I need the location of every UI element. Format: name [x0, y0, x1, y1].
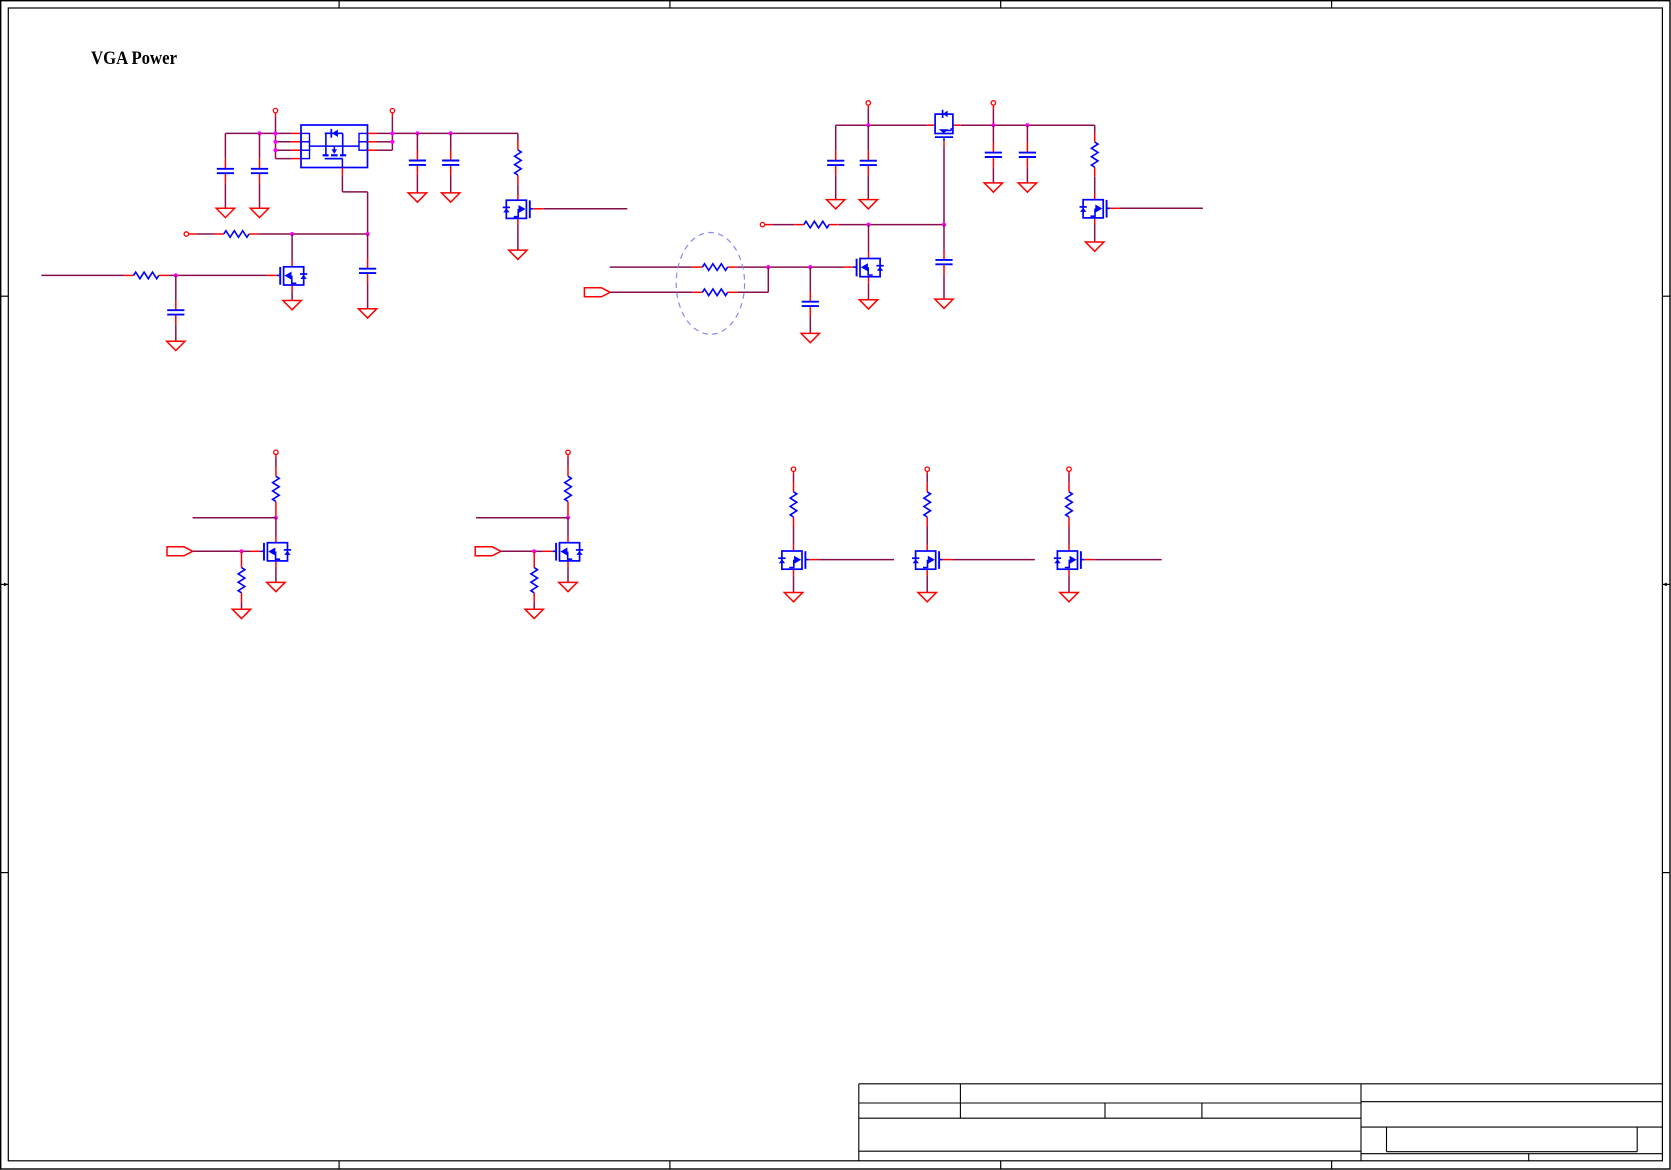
wire Q1 source [517, 225, 519, 251]
wire C10 stem [1026, 125, 1028, 183]
ground G2 [250, 208, 268, 217]
capacitor C1 [217, 159, 234, 184]
wire CN2 to Q6 gate [193, 550, 251, 552]
wire P11 to R14 [1068, 471, 1070, 482]
ground G21 [784, 593, 802, 602]
wire R12 to Q8 [793, 527, 795, 545]
junction C11 tap [808, 265, 812, 269]
wire R9 to ground [241, 602, 243, 609]
wire Q9 source [926, 575, 928, 592]
wire Q3 gate vertical [943, 146, 945, 224]
pin P1 [273, 108, 277, 112]
pin P10 [925, 467, 929, 471]
junction C5 tap [366, 232, 370, 236]
transistor Q2 [267, 261, 307, 292]
resistor R2 [214, 231, 258, 238]
transistor Q6 [251, 537, 291, 568]
wire P3 to R2 [189, 233, 215, 235]
wire C8 stem [867, 125, 869, 199]
ground G20 [559, 582, 577, 591]
ground G13 [1086, 242, 1104, 251]
junction P2 rail [390, 131, 394, 135]
wire Q5 source [868, 283, 870, 300]
wire CN3 to Q7 gate [501, 550, 543, 552]
resistor R9 [238, 558, 245, 602]
wire P6 to R5 [765, 224, 795, 226]
pin P11 [1067, 467, 1071, 471]
junction node A [274, 516, 278, 520]
capacitor C2 [251, 159, 268, 184]
ground G15 [859, 300, 877, 309]
ground G18 [267, 582, 285, 591]
title block [859, 1084, 1663, 1161]
wire U1 outputs [368, 113, 518, 150]
wire C12 stem [943, 225, 945, 300]
transistor Q7 [543, 537, 583, 568]
transistor Q4 [1080, 194, 1120, 225]
wire Q8 source [793, 575, 795, 592]
capacitor C10 [1019, 143, 1036, 168]
wire Q10 gate out [1094, 559, 1162, 561]
wire rail to R1 [517, 133, 519, 140]
transistor Q8 [778, 545, 818, 576]
pin P9 [791, 467, 795, 471]
wire P8 to R10 [567, 455, 569, 467]
wire P10 to R13 [926, 471, 928, 482]
pin P5 [991, 101, 995, 105]
junction U1 pin3 [273, 148, 277, 152]
junction C2 tap [257, 131, 261, 135]
wire divider row1 [610, 266, 811, 268]
ground G8 [283, 301, 301, 310]
svg-text:VGA Power: VGA Power [91, 48, 177, 69]
resistor R7 [693, 289, 737, 296]
junction C6 tap [174, 273, 178, 277]
ground G16 [935, 299, 953, 308]
capacitor C8 [860, 151, 877, 176]
junction C12 tap [942, 223, 946, 227]
ground G14 [801, 333, 819, 342]
wire Q9 gate out [952, 559, 1035, 561]
wire net VIN_R top rail [836, 125, 1095, 150]
wire P1 to U1 pins [276, 113, 302, 159]
wire R10 to node B [567, 511, 569, 518]
capacitor C11 [802, 292, 819, 317]
transistor Q10 [1054, 545, 1094, 576]
wire C7 to ground [835, 175, 837, 199]
wire P7 to R8 [275, 455, 277, 467]
ground G10 [859, 200, 877, 209]
ground G5 [509, 250, 527, 259]
transistor Q5 [843, 252, 883, 282]
resistor R10 [565, 467, 572, 511]
border center arrow left [1, 583, 9, 587]
junction node B [566, 516, 570, 520]
resistor R8 [273, 467, 280, 511]
junction C3 tap [415, 131, 419, 135]
ground G12 [1018, 183, 1036, 192]
wire R1 to Q1 [517, 185, 519, 195]
junction P4 rail [866, 123, 870, 127]
wire R14 to Q10 [1068, 527, 1070, 545]
wire Q4 gate out [1120, 207, 1203, 209]
wire node B to Q7 [567, 518, 569, 537]
resistor R6 [693, 264, 737, 271]
wire gate to R11 [533, 551, 535, 558]
ground G23 [1060, 593, 1078, 602]
wire C5 stem [367, 234, 369, 309]
junction divider join [766, 265, 770, 269]
connector CN3 [475, 547, 501, 556]
wire P9 to R12 [793, 471, 795, 482]
connector CN1 [584, 288, 610, 297]
resistor R14 [1066, 482, 1073, 526]
pin P7 [274, 450, 278, 454]
wire gate node to Q5 [868, 225, 870, 253]
p-mosfet Q3 [927, 110, 961, 146]
pin P2 [390, 108, 394, 112]
ground G11 [984, 183, 1002, 192]
capacitor C6 [167, 300, 184, 325]
wire Q10 source [1068, 575, 1070, 592]
connector CN2 [167, 547, 193, 556]
capacitor C12 [935, 250, 952, 275]
wire Q8 gate out [819, 559, 894, 561]
wire R8 to node A [275, 511, 277, 518]
wire Q7 source [567, 567, 569, 582]
pin P6 [760, 222, 764, 226]
dashed highlight ellipse [676, 233, 744, 335]
ground G3 [408, 193, 426, 202]
border center arrow right [1662, 583, 1670, 587]
wire C6 stem [175, 275, 177, 341]
wire R11 to ground [533, 602, 535, 609]
junction C10 tap [1025, 123, 1029, 127]
resistor R11 [531, 558, 538, 602]
dual p-mosfet U1 [301, 125, 368, 175]
wire Q5 gate in [810, 266, 843, 268]
wire Q1 gate out [543, 208, 627, 210]
wire gate row [839, 224, 944, 226]
ground G9 [827, 200, 845, 209]
ground G1 [216, 208, 234, 217]
resistor R13 [924, 482, 931, 526]
resistor R3 [124, 272, 168, 279]
wire divider row2 [610, 267, 768, 292]
wire Q2 source [291, 291, 293, 300]
capacitor C9 [985, 143, 1002, 168]
wire W2 input row [41, 274, 267, 276]
wire R2 to gate node [259, 233, 368, 235]
capacitor C4 [442, 150, 459, 175]
capacitor C7 [827, 151, 844, 176]
transistor Q1 [503, 194, 543, 225]
wire gate node to Q2 [291, 234, 293, 261]
transistor Q9 [912, 545, 952, 576]
pin P4 [866, 101, 870, 105]
ground G4 [442, 193, 460, 202]
wire U1 gate elbow [342, 175, 367, 234]
wire node B stub left [476, 517, 568, 519]
resistor R4 [1091, 133, 1098, 177]
wire net VIN_L top rail [225, 133, 301, 158]
capacitor C5 [359, 259, 376, 284]
wire C11 stem [809, 267, 811, 333]
wire P5 stem [992, 105, 994, 125]
wire Q6 source [275, 567, 277, 582]
ground G7 [167, 341, 185, 350]
wire rail to R4 [1094, 125, 1096, 132]
wire C2 stem [259, 133, 261, 208]
pin P3 [184, 232, 188, 236]
junction Q5 drain tap [866, 223, 870, 227]
wire node A stub left [193, 517, 276, 519]
pin P8 [566, 450, 570, 454]
junction Q2 drain tap [290, 232, 294, 236]
ground G6 [358, 309, 376, 318]
junction Q7 gate node [532, 549, 536, 553]
wire C3 stem [416, 133, 418, 193]
wire C9 stem [992, 125, 994, 183]
wire P4 stem [867, 105, 869, 125]
ground G19 [525, 609, 543, 618]
junction P1 rail [273, 131, 277, 135]
wire R13 to Q9 [926, 527, 928, 545]
wire Q4 source [1094, 224, 1096, 242]
wire node A to Q6 [275, 518, 277, 537]
resistor R12 [790, 482, 797, 526]
wire C1 to ground [224, 183, 226, 208]
capacitor C3 [409, 150, 426, 175]
wire R4 to Q4 [1094, 177, 1096, 194]
junction Q6 gate node [239, 549, 243, 553]
ground G22 [918, 593, 936, 602]
wire C4 stem [450, 133, 452, 193]
ground G17 [232, 609, 250, 618]
junction U1 pin2 [273, 140, 277, 144]
resistor R1 [515, 140, 522, 184]
wire gate to R9 [241, 551, 243, 558]
junction P2 pin2 [390, 140, 394, 144]
junction P5 rail [991, 123, 995, 127]
resistor R5 [794, 221, 838, 228]
junction C4 tap [449, 131, 453, 135]
